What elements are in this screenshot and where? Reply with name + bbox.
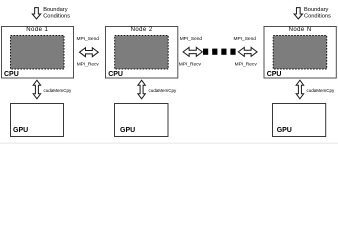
svg-text:MPI_Send: MPI_Send xyxy=(234,36,257,42)
cudaMemCpy arrow node N xyxy=(296,80,304,99)
svg-text:GPU: GPU xyxy=(277,127,292,134)
gray domain rect node 2 xyxy=(115,36,169,70)
faint ghost line bottom xyxy=(0,143,338,144)
node 1 box xyxy=(2,27,74,79)
boundary conditions arrow (right) xyxy=(294,8,302,19)
svg-text:CPU: CPU xyxy=(108,71,123,78)
gpu box node 1 xyxy=(11,104,64,137)
cudaMemCpy arrow node 1 xyxy=(33,80,41,99)
svg-text:GPU: GPU xyxy=(120,127,135,134)
ellipsis square 4 xyxy=(230,49,235,55)
mpi double arrow link 1 xyxy=(80,48,99,57)
svg-text:Conditions: Conditions xyxy=(43,13,70,19)
gray domain rect node 1 xyxy=(11,36,65,70)
svg-text:cudaMemCpy: cudaMemCpy xyxy=(149,88,178,93)
gray domain rect node N xyxy=(273,36,327,70)
svg-text:GPU: GPU xyxy=(13,127,28,134)
svg-text:MPI_Send: MPI_Send xyxy=(180,36,203,42)
cudaMemCpy arrow node 2 xyxy=(138,80,146,99)
ellipsis square 3 xyxy=(221,49,226,55)
node N box xyxy=(264,27,336,79)
svg-text:MPI_Recv: MPI_Recv xyxy=(179,61,202,67)
ellipsis square 2 xyxy=(212,49,217,55)
gpu box node N xyxy=(273,104,326,137)
svg-text:CPU: CPU xyxy=(267,71,282,78)
svg-text:Boundary: Boundary xyxy=(304,7,329,13)
svg-text:MPI_Recv: MPI_Recv xyxy=(235,61,258,67)
boundary conditions arrow (left) xyxy=(32,8,40,19)
mpi double arrow link 3 xyxy=(238,47,257,56)
svg-text:cudaMemCpy: cudaMemCpy xyxy=(44,88,73,93)
svg-text:CPU: CPU xyxy=(4,71,19,78)
svg-text:cudaMemCpy: cudaMemCpy xyxy=(307,88,336,93)
svg-text:Node 1: Node 1 xyxy=(26,27,48,33)
svg-text:MPI_Recv: MPI_Recv xyxy=(77,61,100,67)
svg-text:MPI_Send: MPI_Send xyxy=(77,36,100,42)
mpi double arrow link 2 xyxy=(183,47,202,56)
node 2 box xyxy=(106,27,178,79)
svg-text:Node N: Node N xyxy=(289,27,312,33)
gpu box node 2 xyxy=(115,104,169,137)
ellipsis square 1 xyxy=(203,49,208,55)
svg-text:Conditions: Conditions xyxy=(304,13,331,19)
svg-text:Node 2: Node 2 xyxy=(131,27,153,33)
svg-text:Boundary: Boundary xyxy=(43,7,68,13)
